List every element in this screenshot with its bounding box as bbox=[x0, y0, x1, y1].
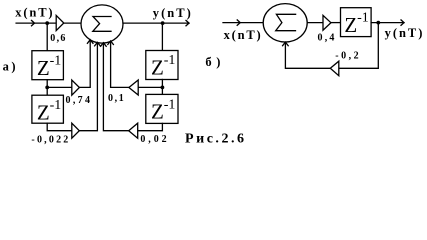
delay Z1 bbox=[32, 51, 64, 80]
amplifier -0,2 bbox=[330, 61, 339, 75]
delay Z4 bbox=[146, 94, 178, 123]
svg-text:x(nT): x(nT) bbox=[15, 6, 52, 20]
svg-text:-1: -1 bbox=[164, 53, 176, 68]
svg-text:Z: Z bbox=[37, 101, 50, 125]
wire input b bbox=[223, 22, 263, 24]
svg-text:-1: -1 bbox=[164, 97, 176, 112]
wire input down to Z1 bbox=[46, 23, 48, 51]
arrowhead output b bbox=[401, 20, 404, 25]
svg-text:-1: -1 bbox=[50, 53, 62, 68]
arrowhead tap3 bbox=[108, 41, 114, 45]
svg-text:а): а) bbox=[3, 59, 16, 73]
delay Z5 bbox=[341, 8, 372, 37]
arrowhead input a bbox=[32, 20, 35, 25]
amplifier 0,1 bbox=[129, 80, 138, 95]
amplifier 0,02 bbox=[129, 123, 138, 138]
svg-text:Z: Z bbox=[151, 56, 164, 80]
wire Z5 to output b bbox=[371, 22, 404, 24]
node input junction a bbox=[45, 21, 49, 25]
svg-text:y(nT): y(nT) bbox=[385, 26, 423, 40]
svg-text:x(nT): x(nT) bbox=[224, 28, 261, 42]
wire feedback b bbox=[285, 23, 378, 69]
delay Z3 bbox=[146, 51, 178, 80]
amplifier 0,4 bbox=[323, 15, 331, 30]
summator S2 bbox=[263, 4, 307, 42]
arrowhead tap2 bbox=[95, 42, 101, 46]
svg-text:0,74: 0,74 bbox=[66, 95, 91, 106]
node tap1 junction bbox=[45, 86, 49, 90]
svg-text:-0,2: -0,2 bbox=[335, 51, 358, 62]
arrowhead output a bbox=[186, 20, 189, 25]
wire amp to sum a bbox=[64, 22, 81, 24]
wire input a bbox=[16, 22, 56, 24]
svg-text:-1: -1 bbox=[357, 10, 369, 25]
wire Z3 to Z4 bbox=[161, 80, 163, 95]
sigma S2 bbox=[276, 14, 296, 30]
delay Z2 bbox=[32, 95, 64, 123]
wire sum to amp b bbox=[307, 22, 323, 24]
wire Z4 down bbox=[138, 123, 163, 130]
sigma S1 bbox=[93, 17, 111, 32]
svg-text:0,6: 0,6 bbox=[50, 33, 65, 44]
svg-text:0,4: 0,4 bbox=[318, 32, 335, 43]
wire Z2 down bbox=[47, 123, 72, 131]
arrowhead feedback b bbox=[283, 42, 289, 46]
svg-text:y(nT): y(nT) bbox=[153, 6, 191, 20]
wire output down to Z3 bbox=[161, 23, 163, 50]
arrowhead tap1 bbox=[87, 40, 93, 44]
svg-text:Рис.2.6: Рис.2.6 bbox=[185, 132, 244, 147]
summator S1 bbox=[81, 5, 123, 43]
arrowhead input b bbox=[237, 20, 240, 25]
wire Z1 to Z2 bbox=[46, 80, 48, 96]
amplifier 0,74 bbox=[72, 80, 80, 95]
wire tap2 to sum bbox=[79, 43, 97, 131]
wire amp to Z5 bbox=[331, 22, 341, 24]
svg-text:Z: Z bbox=[151, 100, 164, 124]
svg-text:0,02: 0,02 bbox=[140, 134, 166, 145]
wire sum to output a bbox=[123, 22, 189, 24]
arrowhead tap4 bbox=[101, 43, 107, 47]
svg-text:Z: Z bbox=[37, 56, 50, 80]
wire tap4 to sum bbox=[103, 43, 128, 131]
svg-text:0,1: 0,1 bbox=[108, 93, 124, 104]
node output junction a bbox=[161, 21, 165, 25]
node tap3 junction bbox=[161, 86, 165, 90]
wire tap3 to sum bbox=[111, 41, 129, 87]
wire tap1 bbox=[47, 86, 72, 88]
svg-text:Z: Z bbox=[344, 13, 357, 37]
svg-text:-0,022: -0,022 bbox=[31, 134, 68, 145]
wire tap1 to sum bbox=[79, 40, 90, 87]
svg-text:б): б) bbox=[205, 55, 220, 69]
wire tap3 bbox=[138, 86, 162, 88]
amplifier 0,6 bbox=[56, 15, 64, 30]
svg-text:-1: -1 bbox=[50, 98, 62, 113]
node feedback junction b bbox=[376, 21, 380, 25]
amplifier -0,022 bbox=[72, 123, 80, 138]
